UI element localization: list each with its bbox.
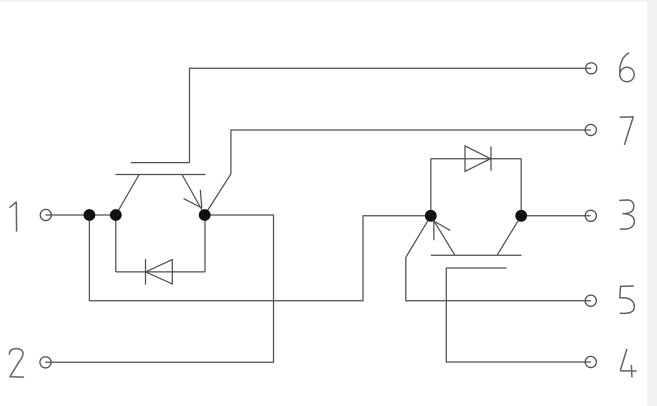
terminal circle pin 2: [40, 357, 51, 368]
node C2 (junction dot): [515, 210, 527, 222]
wire: Q1 emitter node E1 up to pin 7 rail: [205, 130, 591, 215]
wire: node C2 up to diode D2 cathode rail: [520, 159, 522, 216]
right edge gray band (decor): [647, 0, 657, 406]
wire: node E2 to pin 5 rail (auxiliary emitter): [406, 216, 591, 301]
pin label 5: [620, 286, 635, 313]
node A2 (junction dot): [110, 209, 122, 221]
wire: Q2 gate down to pin 4 rail: [446, 268, 591, 362]
wire: node E2 up to diode D2 anode rail: [430, 159, 432, 216]
node E2 (junction dot): [425, 210, 437, 222]
diode D1 (antiparallel, pointing left): [116, 259, 205, 285]
wire: node A2 down to diode D1 anode rail: [115, 215, 117, 272]
top edge light line (decor): [0, 0, 657, 2]
transistor Q2 (right IGBT, mirrored): [431, 216, 522, 268]
wire: node E1 right, down and across to pin 2: [45, 215, 273, 362]
pin label 7: [620, 117, 633, 144]
terminal circle pin 6: [586, 63, 597, 74]
terminal circle pin 4: [585, 356, 596, 367]
wire: node E1 down to diode D1 cathode rail: [204, 215, 206, 272]
diode D2 (antiparallel, pointing right): [431, 146, 521, 172]
wire: pin 1 to node A2: [45, 214, 115, 216]
node A1 (junction dot): [84, 209, 96, 221]
pin label 3: [620, 200, 634, 229]
pin label 1: [10, 202, 17, 231]
node E1 (junction dot): [199, 209, 211, 221]
terminal circle pin 5: [585, 295, 596, 306]
pin label 6: [620, 53, 634, 82]
terminal circle pin 3: [585, 210, 596, 221]
terminal circle pin 7: [585, 124, 596, 135]
wire: node A1 down and across to node E2 (bottom interconnect): [89, 215, 430, 301]
pin label 2: [9, 349, 23, 378]
pin label 4: [620, 350, 636, 377]
wire: Q1 gate up to pin 6 rail: [190, 68, 592, 162]
terminal circle pin 1: [40, 209, 51, 220]
wire: node C2 to pin 3: [521, 215, 591, 217]
transistor Q1 (left IGBT): [116, 163, 206, 215]
